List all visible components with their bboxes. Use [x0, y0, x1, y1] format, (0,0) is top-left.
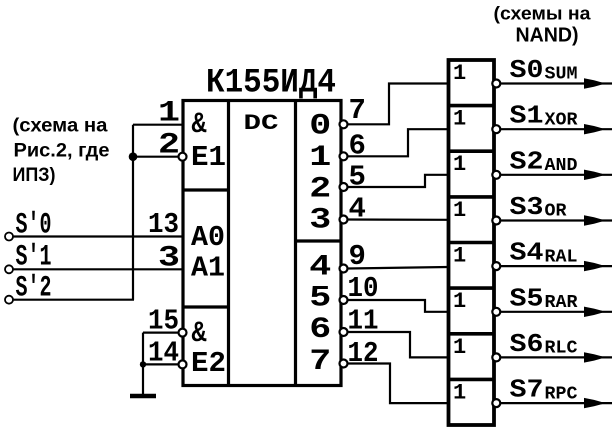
junction node (riser/pin14) [140, 361, 146, 367]
svg-text:S6: S6 [510, 329, 544, 359]
svg-text:1: 1 [453, 198, 466, 223]
wire S3 [501, 219, 612, 221]
IC middle/right column divider [294, 101, 297, 386]
inversion bubble pin4 [340, 216, 348, 224]
svg-text:S1: S1 [510, 101, 544, 131]
inverter 1 output bubble [492, 80, 500, 88]
inverter divider 7/8 [449, 378, 495, 382]
svg-text:A1: A1 [191, 252, 225, 285]
svg-text:1: 1 [453, 244, 466, 269]
svg-text:XOR: XOR [545, 110, 578, 130]
inversion bubble pin14 [179, 360, 187, 368]
input terminal S'1 [5, 265, 13, 273]
svg-text:7: 7 [349, 94, 366, 127]
arrow S7 [584, 398, 602, 408]
inverter 7 output bubble [492, 353, 500, 361]
wire pin4 to inverter4 [348, 218, 449, 221]
inversion bubble pin6 [340, 152, 348, 160]
svg-text:A0: A0 [191, 221, 225, 254]
wire pin7 to inverter1 [348, 84, 449, 125]
svg-text:4: 4 [309, 251, 331, 285]
svg-text:S0: S0 [510, 55, 544, 85]
svg-text:2: 2 [309, 173, 331, 207]
arrow S1 [584, 124, 602, 134]
junction node (riser/pin2) [129, 152, 138, 161]
svg-text:AND: AND [545, 156, 578, 176]
wire riser E2 to ground [142, 333, 144, 396]
wire pin15 [143, 332, 179, 334]
wire pin14 [143, 363, 179, 365]
svg-text:1: 1 [453, 380, 466, 405]
IC left column section divider (A/E2) [183, 305, 229, 308]
arrow S5 [584, 307, 602, 317]
input terminal S'2 [5, 296, 13, 304]
svg-text:RLC: RLC [545, 339, 578, 359]
svg-text:5: 5 [309, 282, 331, 316]
svg-text:12: 12 [348, 337, 379, 370]
svg-text:3: 3 [309, 204, 331, 238]
inverter 2 output bubble [492, 125, 500, 133]
arrow S0 [584, 78, 602, 88]
wire S2 [501, 174, 612, 176]
svg-text:&: & [192, 317, 207, 351]
inverter column body [449, 60, 495, 425]
wire pin12 to inverter8 [348, 364, 449, 404]
svg-text:&: & [192, 108, 207, 142]
svg-text:OR: OR [545, 202, 567, 222]
inverter divider 6/7 [449, 332, 495, 336]
inverter divider 1/2 [449, 104, 495, 108]
svg-text:7: 7 [309, 345, 331, 379]
inverter 3 output bubble [492, 171, 500, 179]
wire pin6 to inverter2 [348, 129, 449, 156]
inverter 8 output bubble [492, 399, 500, 407]
svg-text:1: 1 [453, 61, 466, 86]
svg-text:SUM: SUM [545, 65, 578, 85]
inversion bubble pin10 [340, 296, 348, 304]
wire pin10 to inverter6 [348, 300, 449, 312]
svg-text:E2: E2 [191, 347, 226, 380]
arrow S2 [584, 170, 602, 180]
svg-text:1: 1 [453, 335, 466, 360]
inverter 6 output bubble [492, 308, 500, 316]
svg-text:S2: S2 [510, 146, 544, 176]
svg-text:ИПЗ): ИПЗ) [13, 165, 56, 186]
inverter divider 4/5 [449, 241, 495, 245]
IC output column section divider [296, 239, 342, 242]
wire S0 [501, 82, 612, 84]
arrow S6 [584, 352, 602, 362]
inverter 5 output bubble [492, 262, 500, 270]
wire riser E1 [132, 125, 134, 300]
wire pin11 to inverter7 [348, 332, 449, 357]
ground [130, 394, 156, 399]
inversion bubble pin9 [340, 265, 348, 273]
svg-text:RAL: RAL [545, 247, 578, 267]
wire S7 [501, 402, 612, 404]
IC U1 body [183, 101, 341, 386]
svg-text:RAR: RAR [545, 293, 578, 313]
svg-text:К155ИД4: К155ИД4 [206, 65, 336, 103]
wire S6 [501, 356, 612, 358]
inversion bubble pin12 [340, 360, 348, 368]
svg-text:1: 1 [453, 107, 466, 132]
svg-text:1: 1 [453, 289, 466, 314]
input terminal S'0 [5, 233, 13, 241]
wire S'2 to riser [13, 299, 134, 301]
svg-text:E1: E1 [191, 141, 226, 174]
svg-text:S5: S5 [510, 283, 544, 313]
svg-text:DC: DC [244, 110, 279, 136]
wire pin3 (S'1 to A1) [13, 268, 183, 270]
inversion bubble pin2 [179, 153, 187, 161]
inversion bubble pin11 [340, 328, 348, 336]
inversion bubble pin5 [340, 183, 348, 191]
svg-text:1: 1 [453, 152, 466, 177]
wire pin5 to inverter3 [348, 175, 449, 187]
wire pin1 [133, 124, 183, 126]
inversion bubble pin7 [340, 120, 348, 128]
wire S5 [501, 311, 612, 313]
svg-text:5: 5 [349, 161, 366, 194]
svg-text:S3: S3 [510, 192, 544, 222]
svg-text:S7: S7 [510, 375, 544, 405]
inverter 4 output bubble [492, 217, 500, 225]
arrow S4 [584, 261, 602, 271]
svg-text:(схема на: (схема на [13, 116, 108, 137]
wire pin13 (S'0 to A0) [13, 235, 183, 237]
inverter divider 2/3 [449, 149, 495, 153]
svg-text:Рис.2, где: Рис.2, где [14, 141, 110, 162]
svg-text:S4: S4 [510, 238, 544, 268]
IC left/middle column divider [227, 101, 230, 386]
IC left column section divider (E1/A) [183, 188, 229, 191]
svg-text:6: 6 [349, 130, 366, 163]
svg-text:RPC: RPC [545, 384, 578, 404]
svg-text:NAND): NAND) [516, 24, 579, 47]
wire S4 [501, 265, 612, 267]
svg-text:1: 1 [309, 141, 331, 175]
inversion bubble pin15 [179, 329, 187, 337]
wire pin2 [133, 156, 179, 158]
wire pin9 to inverter5 [348, 267, 449, 269]
svg-text:(схемы на: (схемы на [494, 4, 592, 24]
wire S1 [501, 128, 612, 130]
inverter divider 3/4 [449, 195, 495, 199]
arrow S3 [584, 215, 602, 225]
svg-text:6: 6 [309, 313, 331, 347]
svg-text:0: 0 [309, 110, 331, 144]
inverter divider 5/6 [449, 286, 495, 290]
